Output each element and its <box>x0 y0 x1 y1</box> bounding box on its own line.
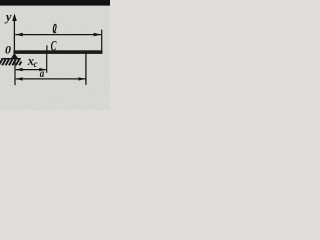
svg-text:c: c <box>34 59 38 69</box>
svg-text:C: C <box>51 37 58 54</box>
svg-text:y: y <box>4 10 12 24</box>
svg-text:a: a <box>40 68 45 80</box>
svg-text:0: 0 <box>5 43 11 57</box>
